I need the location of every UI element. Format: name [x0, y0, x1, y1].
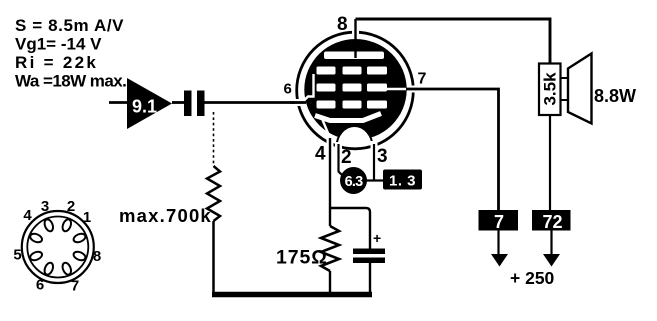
arrow supply right	[543, 254, 560, 267]
tube heater dome	[337, 126, 373, 147]
svg-text:1. 3: 1. 3	[389, 173, 416, 190]
wire dashed grid leak	[213, 112, 215, 166]
svg-text:3.5k: 3.5k	[541, 72, 560, 106]
arrow supply left	[491, 254, 508, 267]
socket outer circle	[22, 211, 94, 283]
value label 175 ohm	[276, 247, 328, 269]
wire box72 to arrow	[550, 231, 552, 255]
svg-text:4: 4	[23, 207, 32, 224]
svg-text:6: 6	[284, 81, 292, 98]
svg-text:3: 3	[377, 146, 388, 167]
resistor cathode 175 ohm	[321, 209, 339, 293]
tube envelope circle	[297, 32, 414, 149]
wire grid pin 6 ring crossing	[290, 99, 306, 106]
wire capacitor to grid pin 6	[204, 101, 300, 104]
tube cathode connector pin4	[323, 120, 331, 139]
transformer primary 3.5k	[539, 64, 561, 116]
svg-text:6.3: 6.3	[345, 174, 363, 190]
wire box7 to arrow	[497, 231, 499, 255]
svg-text:+ 250: + 250	[510, 268, 555, 288]
svg-text:5: 5	[13, 247, 21, 264]
svg-text:8: 8	[337, 14, 348, 35]
svg-text:2: 2	[341, 147, 352, 168]
svg-text:4: 4	[315, 144, 326, 165]
value label S=8.5mA/V	[15, 16, 124, 35]
heater voltage disc 6.3	[340, 167, 367, 194]
wire cathode pin 4 down	[327, 138, 334, 209]
pin label 4	[315, 144, 326, 165]
svg-text:7: 7	[494, 212, 504, 232]
wire heater horizontal	[366, 179, 383, 181]
polarity label +	[373, 230, 381, 246]
svg-text:Ri = 22k: Ri = 22k	[15, 53, 98, 72]
input amplifier triangle 9.1	[127, 78, 172, 129]
socket label 6	[36, 277, 44, 294]
svg-text:S = 8.5m A/V: S = 8.5m A/V	[15, 16, 124, 35]
current box 72 (mA)	[532, 210, 571, 232]
wire screen pin 7 to supply	[406, 89, 499, 210]
wire triangle to capacitor	[172, 101, 185, 104]
socket pin 2	[61, 218, 73, 232]
tube anode connector pin7	[387, 88, 406, 90]
wire transformer to anode current box	[549, 116, 551, 211]
svg-text:175Ω: 175Ω	[276, 247, 328, 269]
pin label 7	[418, 71, 427, 88]
tube cathode band	[315, 114, 381, 121]
svg-text:6: 6	[36, 277, 44, 294]
socket pin 3	[43, 218, 55, 232]
value label 8.8W	[594, 86, 636, 106]
socket label 1	[83, 209, 91, 226]
svg-text:3: 3	[41, 198, 49, 215]
tube U1 internal anode/grid structure	[304, 39, 406, 140]
svg-text:Vg1= -14 V: Vg1= -14 V	[15, 35, 102, 54]
socket label 5	[13, 247, 21, 264]
value label max.700k	[119, 205, 212, 226]
capacitor coupling C1	[184, 91, 205, 117]
wire heater pin 3	[371, 141, 378, 181]
pin label 3	[377, 146, 388, 167]
svg-text:7: 7	[418, 71, 427, 88]
heater current box 1.3	[383, 170, 422, 190]
value label Vg1=-14V	[15, 35, 102, 54]
svg-text:Wa =18W max.: Wa =18W max.	[15, 72, 126, 91]
socket pin 1	[72, 232, 86, 244]
wire cathode junction horizontal	[330, 208, 370, 249]
speaker LS1	[568, 54, 592, 124]
socket label 3	[41, 198, 49, 215]
current box 7 (mA)	[479, 210, 519, 232]
pin label 6	[284, 81, 292, 98]
resistor grid leak max.700k	[207, 166, 220, 221]
wire anode lead pin 8	[352, 19, 359, 58]
socket pin 6	[43, 262, 55, 276]
socket pin 4	[29, 232, 43, 244]
svg-text:8: 8	[93, 248, 101, 265]
socket pin 8	[72, 250, 86, 262]
svg-text:72: 72	[542, 212, 562, 232]
socket pin 7	[61, 262, 73, 276]
socket label 7	[71, 278, 79, 295]
wire ground bus (thick bottom)	[212, 292, 372, 298]
value label Ri=22k	[15, 53, 98, 72]
value label Wa=18W max	[15, 72, 126, 91]
tube grid connector pin6	[303, 74, 314, 102]
socket label 4	[23, 207, 32, 224]
capacitor electrolytic cathode	[353, 249, 385, 294]
wire transformer to speaker ticks	[561, 78, 568, 100]
wire heater pin 2	[339, 142, 343, 176]
socket label 8	[93, 248, 101, 265]
value label +250	[510, 268, 555, 288]
svg-text:8.8W: 8.8W	[594, 86, 636, 106]
svg-text:9.1: 9.1	[132, 97, 157, 117]
svg-text:7: 7	[71, 278, 79, 295]
svg-text:1: 1	[83, 209, 91, 226]
wire resistor to ground bus	[212, 221, 215, 293]
pin label 2	[341, 147, 352, 168]
svg-text:+: +	[373, 230, 381, 246]
wire input stub	[109, 101, 127, 104]
socket pin 5	[29, 250, 43, 262]
pin label 8	[337, 14, 348, 35]
socket label 2	[67, 198, 75, 215]
svg-text:max.700k: max.700k	[119, 205, 212, 226]
socket inner circle	[27, 217, 88, 278]
svg-text:2: 2	[67, 198, 75, 215]
wire anode top to transformer	[356, 19, 551, 64]
